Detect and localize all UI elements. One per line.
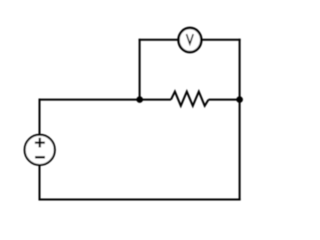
voltage source V1 body (25, 135, 55, 165)
wire left vertical of meter branch (139, 39, 141, 100)
wire right vertical (node B down to bottom rail) (239, 39, 241, 201)
voltage source V1 minus sign (35, 156, 45, 158)
wire top (node A to node B via voltmeter) (139, 39, 241, 41)
voltmeter VM1 body (179, 28, 202, 52)
voltmeter VM1 letter V (187, 34, 194, 44)
wire left vertical (through source V1) (39, 99, 41, 201)
voltage source V1 plus sign (35, 138, 45, 148)
resistor R1 (171, 92, 209, 106)
wire resistor right lead to node B (209, 99, 241, 101)
wire middle row left (source top to resistor left lead) (39, 99, 172, 101)
node A junction dot (136, 96, 143, 103)
wire bottom rail (39, 199, 241, 201)
node B junction dot (236, 96, 243, 103)
